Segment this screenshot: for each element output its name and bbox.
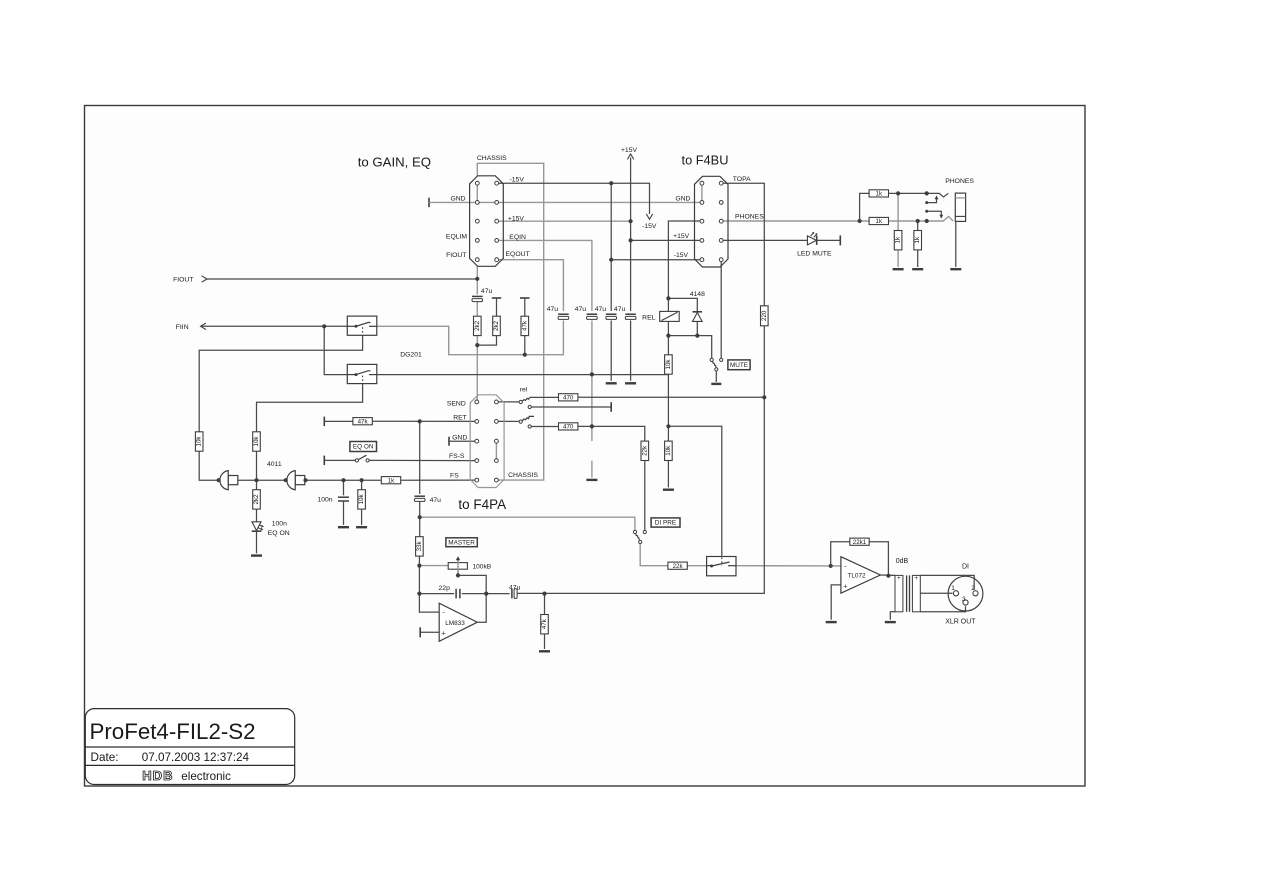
svg-text:1k: 1k	[876, 218, 883, 225]
svg-text:100n: 100n	[317, 497, 332, 504]
svg-text:47u: 47u	[614, 306, 626, 313]
svg-text:220: 220	[761, 310, 768, 321]
svg-text:100n: 100n	[272, 520, 287, 527]
svg-text:GND: GND	[450, 196, 465, 203]
svg-text:EQOUT: EQOUT	[506, 251, 530, 258]
svg-text:1k: 1k	[388, 477, 395, 484]
svg-text:+: +	[843, 583, 847, 590]
svg-text:22k1: 22k1	[853, 539, 867, 546]
svg-text:4148: 4148	[690, 291, 705, 298]
svg-text:47k: 47k	[358, 418, 369, 425]
svg-text:470: 470	[563, 424, 574, 431]
svg-text:1: 1	[951, 585, 955, 592]
svg-text:PHONES: PHONES	[735, 213, 764, 220]
svg-text:DI PRE: DI PRE	[655, 520, 676, 527]
svg-text:MASTER: MASTER	[448, 540, 475, 547]
svg-text:-15V: -15V	[510, 176, 525, 183]
svg-text:47u: 47u	[575, 306, 587, 313]
svg-text:FIOUT: FIOUT	[446, 252, 466, 259]
svg-text:PHONES: PHONES	[945, 178, 974, 185]
svg-text:100kB: 100kB	[472, 564, 491, 571]
svg-text:47k: 47k	[521, 320, 528, 331]
svg-text:22k: 22k	[641, 445, 648, 456]
svg-text:47k: 47k	[541, 618, 548, 629]
svg-text:-15V: -15V	[674, 252, 689, 259]
svg-text:33k: 33k	[416, 541, 423, 552]
svg-text:+: +	[441, 630, 445, 637]
svg-text:EQLIM: EQLIM	[446, 233, 467, 240]
svg-text:GND: GND	[675, 195, 690, 202]
svg-text:10k: 10k	[358, 494, 365, 505]
svg-text:47u: 47u	[509, 584, 521, 591]
svg-text:22p: 22p	[439, 585, 451, 592]
svg-text:LM833: LM833	[445, 620, 465, 627]
svg-text:SEND: SEND	[447, 400, 466, 407]
svg-text:+15V: +15V	[508, 215, 525, 222]
svg-text:+: +	[915, 576, 919, 582]
svg-text:47u: 47u	[430, 497, 442, 504]
svg-text:RET: RET	[453, 414, 467, 421]
svg-text:REL: REL	[642, 314, 655, 321]
svg-text:+15V: +15V	[673, 233, 690, 240]
svg-text:10k: 10k	[665, 359, 672, 370]
svg-text:LED MUTE: LED MUTE	[797, 250, 832, 257]
svg-text:to F4BU: to F4BU	[682, 153, 729, 168]
svg-text:22k: 22k	[673, 563, 684, 570]
svg-text:to GAIN, EQ: to GAIN, EQ	[358, 155, 431, 170]
svg-text:EQIN: EQIN	[509, 234, 526, 241]
svg-text:47u: 47u	[547, 306, 559, 313]
svg-text:TOPA: TOPA	[733, 176, 751, 183]
svg-text:47u: 47u	[595, 306, 607, 313]
svg-text:to F4PA: to F4PA	[458, 497, 506, 512]
svg-text:FS-S: FS-S	[449, 453, 465, 460]
svg-text:-15V: -15V	[642, 223, 657, 230]
svg-text:2k2: 2k2	[474, 320, 481, 331]
svg-text:FIOUT: FIOUT	[173, 277, 193, 284]
svg-text:1k: 1k	[876, 191, 883, 198]
svg-text:TL072: TL072	[847, 573, 866, 580]
svg-text:4011: 4011	[267, 461, 282, 468]
svg-text:DI: DI	[962, 563, 969, 570]
svg-text:HDB: HDB	[142, 768, 173, 783]
svg-text:07.07.2003 12:37:24: 07.07.2003 12:37:24	[142, 751, 250, 764]
svg-text:10k: 10k	[253, 436, 260, 447]
svg-text:CHASSIS: CHASSIS	[477, 155, 507, 162]
svg-text:EQ ON: EQ ON	[353, 444, 374, 451]
svg-text:0dB: 0dB	[896, 558, 909, 565]
svg-text:DG201: DG201	[400, 351, 422, 358]
svg-text:FS: FS	[450, 472, 459, 479]
svg-text:electronic: electronic	[181, 770, 231, 783]
svg-text:+: +	[897, 576, 901, 582]
svg-text:3: 3	[962, 596, 966, 603]
svg-text:Date:: Date:	[91, 751, 119, 764]
svg-text:2: 2	[971, 585, 975, 592]
svg-text:ProFet4-FIL2-S2: ProFet4-FIL2-S2	[90, 719, 256, 744]
svg-text:XLR OUT: XLR OUT	[945, 618, 976, 625]
svg-text:47u: 47u	[481, 288, 493, 295]
svg-text:1k: 1k	[895, 236, 902, 243]
svg-text:FIIN: FIIN	[176, 324, 189, 331]
svg-text:GND: GND	[452, 435, 467, 442]
svg-text:EQ ON: EQ ON	[268, 530, 290, 537]
svg-text:2k2: 2k2	[493, 320, 500, 331]
svg-text:2k2: 2k2	[253, 494, 260, 505]
svg-text:MUTE: MUTE	[730, 362, 748, 369]
svg-text:10k: 10k	[196, 436, 203, 447]
svg-text:rel: rel	[520, 386, 528, 393]
svg-text:CHASSIS: CHASSIS	[508, 472, 538, 479]
svg-text:470: 470	[563, 395, 574, 402]
svg-text:1k: 1k	[914, 236, 921, 243]
svg-text:10k: 10k	[665, 445, 672, 456]
svg-text:+15V: +15V	[621, 147, 638, 154]
